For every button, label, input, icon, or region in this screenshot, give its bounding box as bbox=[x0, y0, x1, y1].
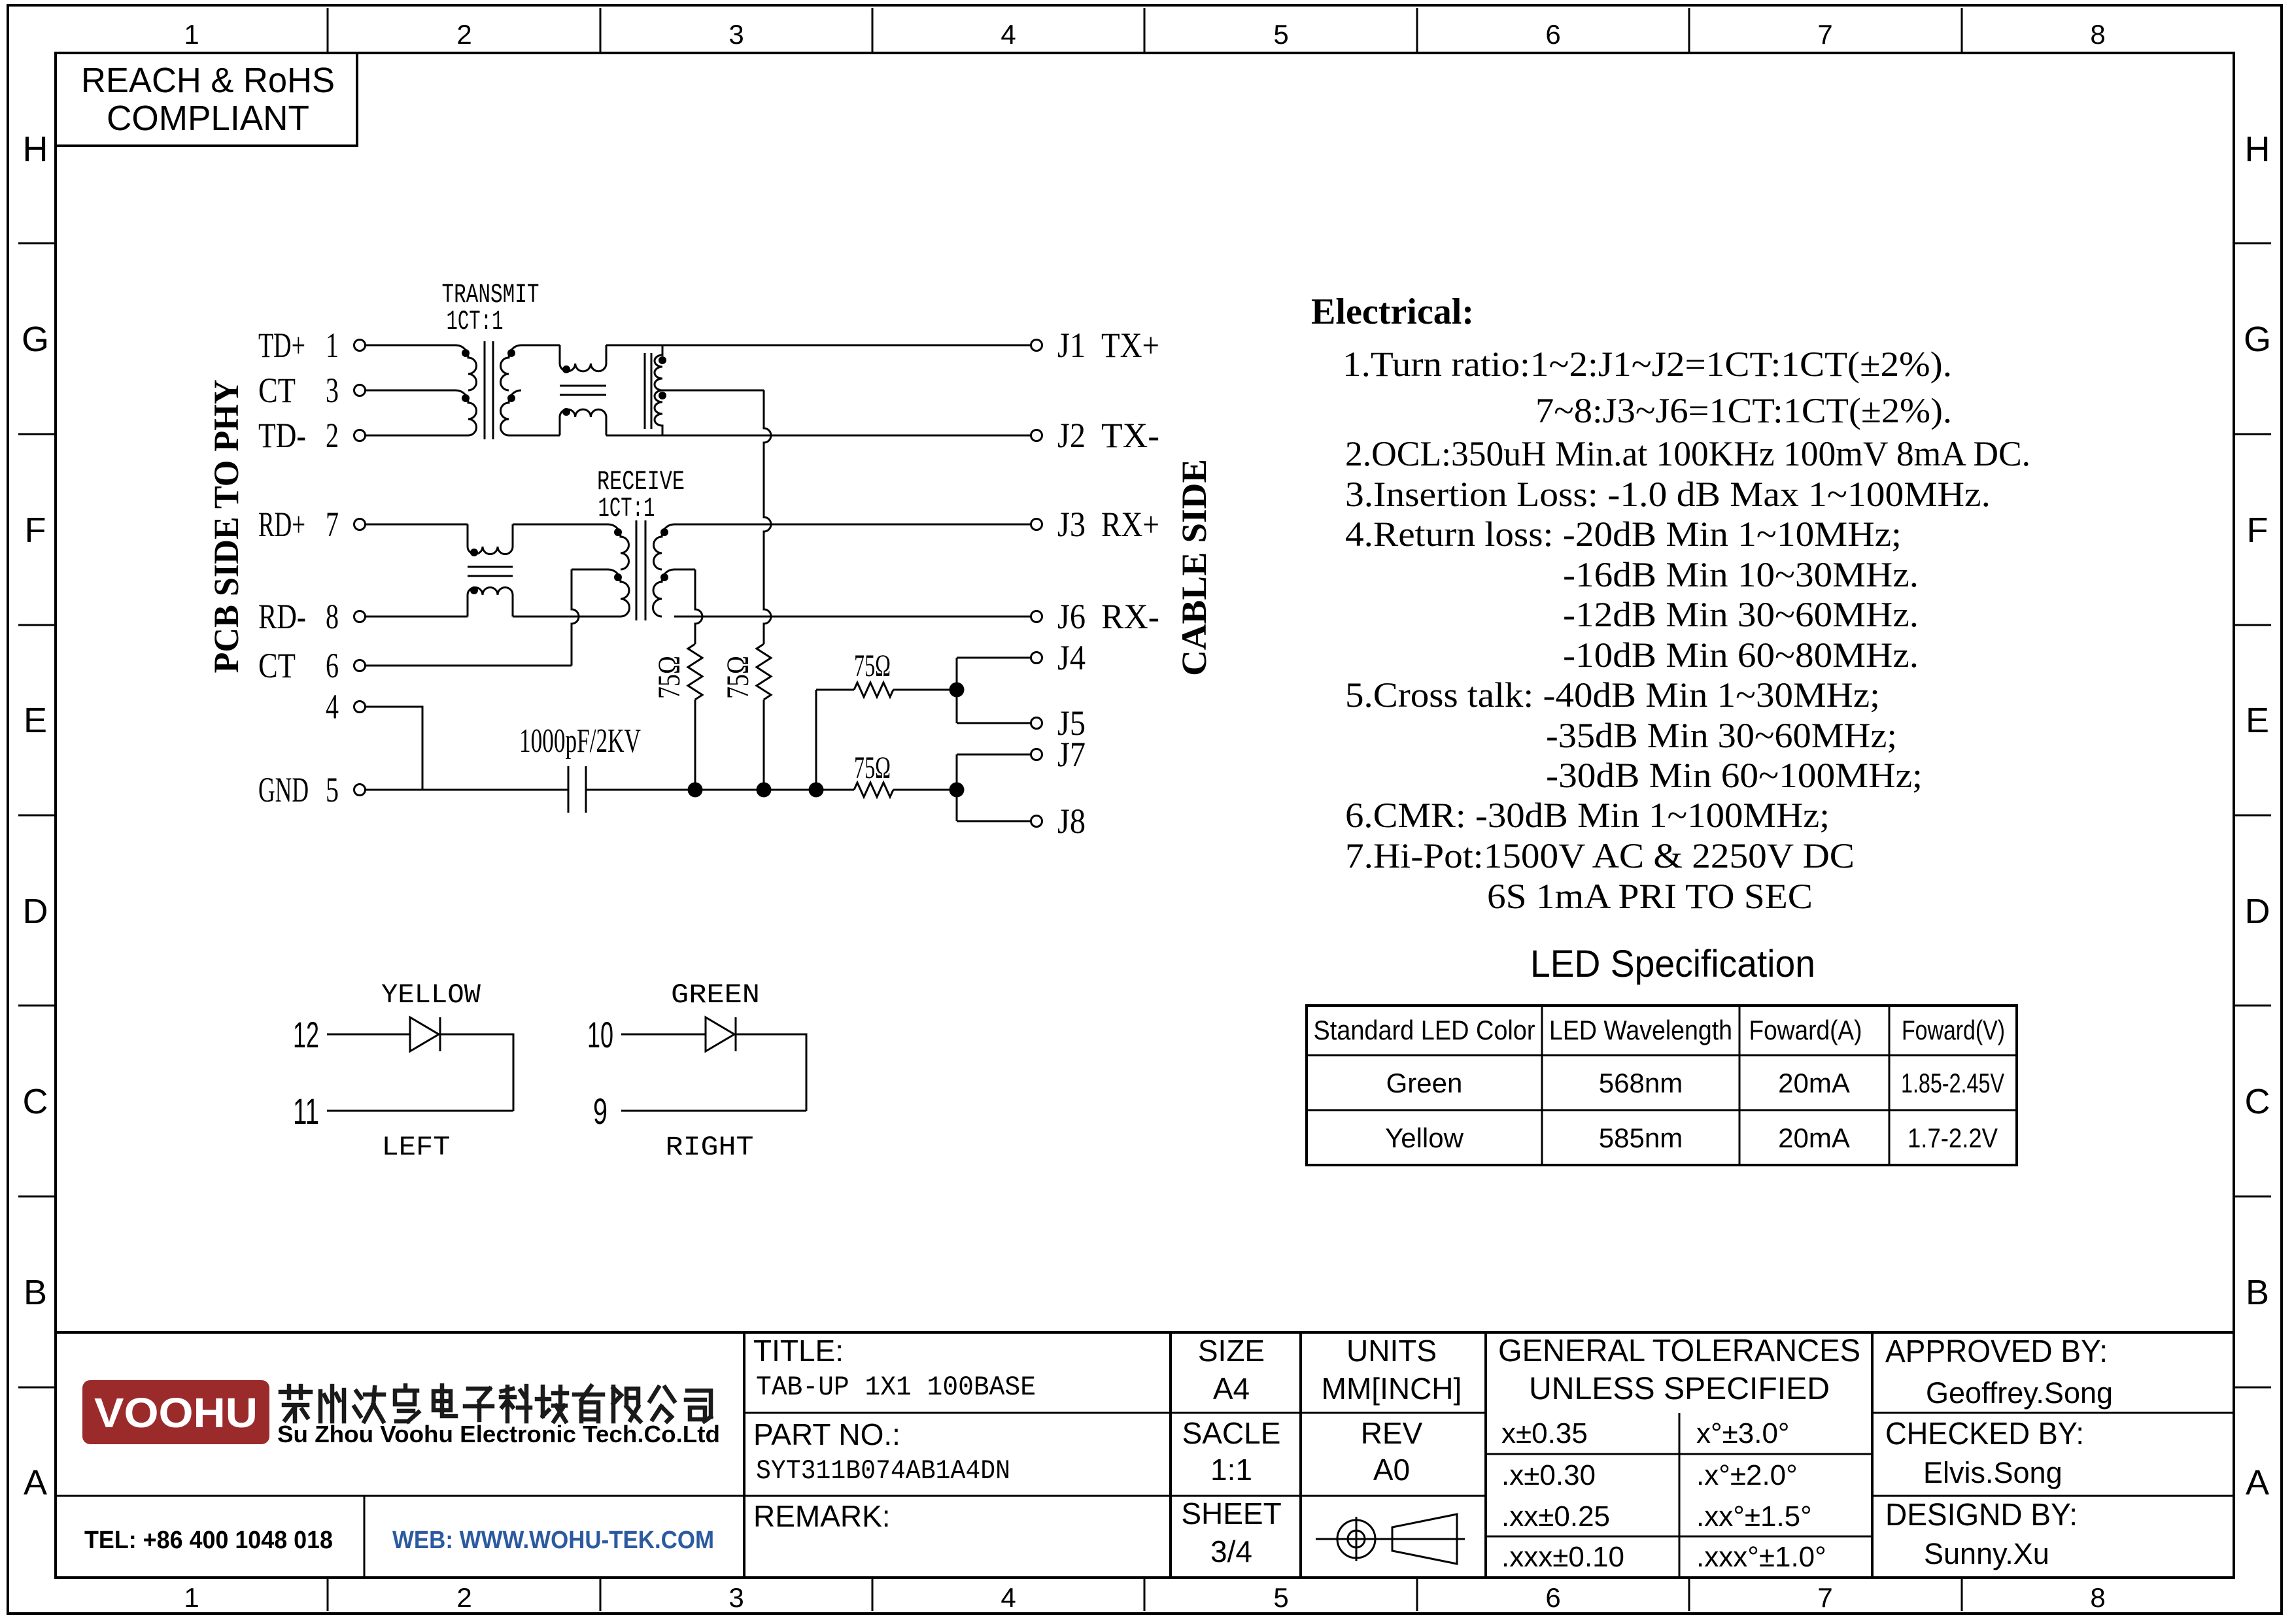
choke L2 top winding bbox=[468, 524, 513, 554]
pin 3 terminal CT bbox=[258, 371, 366, 410]
wire pin10 to D2 bbox=[621, 1034, 706, 1036]
svg-text:SYT311B074AB1A4DN: SYT311B074AB1A4DN bbox=[756, 1455, 1010, 1487]
svg-text:TX+: TX+ bbox=[1101, 326, 1159, 365]
svg-text:1.7-2.2V: 1.7-2.2V bbox=[1908, 1123, 1998, 1153]
pin 2 terminal TD- bbox=[258, 416, 366, 455]
svg-text:D: D bbox=[23, 892, 48, 931]
svg-text:F: F bbox=[2247, 511, 2268, 550]
svg-text:WEB: WWW.WOHU-TEK.COM: WEB: WWW.WOHU-TEK.COM bbox=[392, 1527, 714, 1554]
svg-text:A: A bbox=[2246, 1463, 2269, 1502]
svg-text:7: 7 bbox=[1817, 19, 1832, 50]
svg-text:12: 12 bbox=[293, 1014, 319, 1055]
junction node GND/R3 riser bbox=[809, 783, 824, 798]
label CABLE SIDE bbox=[1174, 459, 1214, 676]
svg-text:10: 10 bbox=[587, 1014, 613, 1055]
wire pin1 to T1 primary bbox=[366, 345, 456, 347]
title block grid bbox=[56, 1332, 2234, 1578]
wire stub J8 bbox=[957, 820, 1031, 822]
svg-text:75Ω: 75Ω bbox=[854, 649, 891, 683]
wire T1 secondary bottom to choke L1 bbox=[509, 435, 560, 437]
wire pin6 bbox=[366, 665, 572, 667]
svg-text:Green: Green bbox=[1386, 1068, 1463, 1098]
svg-text:CT: CT bbox=[258, 371, 296, 410]
L2 polarity dots bbox=[470, 549, 478, 556]
svg-text:2: 2 bbox=[456, 1582, 471, 1613]
svg-text:7: 7 bbox=[326, 505, 339, 544]
svg-text:J3: J3 bbox=[1057, 505, 1086, 544]
label RECEIVE 1CT:1 bbox=[597, 466, 685, 524]
svg-text:PART NO.:: PART NO.: bbox=[753, 1417, 900, 1451]
label PCB SIDE TO PHY bbox=[207, 380, 246, 673]
svg-text:4: 4 bbox=[1001, 1582, 1016, 1613]
border column tick marks bottom bbox=[328, 1578, 1962, 1611]
terminal J2 TX- bbox=[1031, 416, 1160, 455]
wire R4 to J7/J8 node bbox=[893, 789, 957, 791]
svg-text:Foward(V): Foward(V) bbox=[1902, 1015, 2005, 1045]
svg-text:J4: J4 bbox=[1057, 638, 1086, 677]
transformer T2 core bbox=[636, 520, 638, 620]
svg-text:E: E bbox=[2246, 701, 2269, 740]
svg-text:7: 7 bbox=[1817, 1582, 1832, 1613]
svg-text:SACLE: SACLE bbox=[1182, 1416, 1281, 1450]
wire riser to pin6 (hop over pin8 wire) bbox=[572, 569, 579, 666]
wire pin3 to T1 primary CT bbox=[366, 390, 456, 392]
svg-text:75Ω: 75Ω bbox=[652, 656, 687, 699]
svg-text:x°±3.0°: x°±3.0° bbox=[1696, 1417, 1790, 1449]
svg-text:RX+: RX+ bbox=[1101, 505, 1159, 544]
svg-text:1: 1 bbox=[184, 19, 199, 50]
wire stub J7 bbox=[957, 754, 1031, 756]
svg-text:LED Specification: LED Specification bbox=[1530, 943, 1815, 985]
svg-text:8: 8 bbox=[326, 597, 339, 636]
svg-text:.xx±0.25: .xx±0.25 bbox=[1501, 1500, 1610, 1532]
resistor R1 75ohm vertical bbox=[688, 644, 702, 700]
wire T2 secondary bottom to J6 bbox=[674, 616, 1031, 618]
svg-text:8: 8 bbox=[2090, 1582, 2105, 1613]
svg-text:J6: J6 bbox=[1057, 597, 1086, 636]
svg-text:B: B bbox=[24, 1273, 47, 1312]
wire pin7 to choke L2 bbox=[366, 524, 468, 526]
svg-text:6.CMR: -30dB Min 1~100MHz;: 6.CMR: -30dB Min 1~100MHz; bbox=[1345, 796, 1830, 835]
svg-text:A: A bbox=[24, 1463, 47, 1502]
pin 4 terminal bbox=[326, 687, 366, 726]
terminal J3 RX+ bbox=[1031, 505, 1160, 544]
border column numbers top bbox=[184, 19, 2105, 50]
wire bus T2 CT down to R1 (hop over J6) bbox=[695, 569, 702, 644]
resistor R4 75ohm horizontal bbox=[854, 783, 893, 797]
svg-text:5: 5 bbox=[1273, 19, 1288, 50]
svg-text:REMARK:: REMARK: bbox=[753, 1499, 891, 1533]
svg-text:LEFT: LEFT bbox=[382, 1132, 451, 1163]
svg-text:J1: J1 bbox=[1057, 326, 1086, 365]
PART NO cell bbox=[753, 1417, 1010, 1487]
choke L1 core bbox=[560, 385, 606, 387]
REACH & RoHS COMPLIANT box bbox=[56, 53, 357, 146]
svg-text:LED Wavelength: LED Wavelength bbox=[1549, 1015, 1732, 1045]
pin 7 terminal RD+ bbox=[258, 505, 366, 544]
svg-text:2: 2 bbox=[326, 416, 339, 455]
svg-text:-12dB Min 30~60MHz.: -12dB Min 30~60MHz. bbox=[1563, 595, 1919, 634]
wire T2 primary CT bbox=[572, 569, 608, 571]
svg-text:6: 6 bbox=[1545, 1582, 1560, 1613]
terminal J5 bbox=[1031, 703, 1086, 743]
svg-text:.xxx°±1.0°: .xxx°±1.0° bbox=[1696, 1541, 1826, 1573]
terminal J4 bbox=[1031, 638, 1086, 677]
svg-text:11: 11 bbox=[293, 1091, 319, 1132]
svg-text:8: 8 bbox=[2090, 19, 2105, 50]
svg-text:F: F bbox=[25, 511, 46, 550]
svg-text:6: 6 bbox=[1545, 19, 1560, 50]
svg-text:J7: J7 bbox=[1057, 735, 1086, 774]
svg-text:APPROVED BY:: APPROVED BY: bbox=[1885, 1334, 2108, 1369]
L1 polarity dots bbox=[562, 365, 570, 373]
svg-text:-35dB Min 30~60MHz;: -35dB Min 30~60MHz; bbox=[1546, 716, 1897, 755]
pin 5 terminal GND bbox=[258, 770, 366, 809]
junction node R3/J4J5 bbox=[950, 683, 965, 698]
border row letters left bbox=[22, 129, 49, 1502]
diode D1 yellow LED bbox=[410, 1017, 439, 1051]
transformer T3 core bbox=[644, 353, 646, 429]
svg-text:5: 5 bbox=[326, 770, 339, 809]
svg-text:1.85-2.45V: 1.85-2.45V bbox=[1901, 1068, 2004, 1098]
svg-text:DESIGND BY:: DESIGND BY: bbox=[1885, 1498, 2078, 1532]
label R1 75ohm bbox=[652, 656, 687, 699]
LED Specification table bbox=[1307, 1006, 2017, 1165]
svg-text:1: 1 bbox=[326, 326, 339, 365]
svg-text:B: B bbox=[2246, 1273, 2269, 1312]
svg-text:TITLE:: TITLE: bbox=[753, 1334, 844, 1368]
svg-text:1:1: 1:1 bbox=[1210, 1453, 1252, 1487]
wire R2 to GND rail bbox=[763, 700, 765, 790]
svg-text:5.Cross talk: -40dB Min 1~30MH: 5.Cross talk: -40dB Min 1~30MHz; bbox=[1345, 675, 1880, 715]
svg-text:568nm: 568nm bbox=[1599, 1068, 1683, 1098]
transformer T1 primary winding bbox=[456, 345, 477, 390]
svg-text:9: 9 bbox=[593, 1091, 608, 1132]
svg-text:TEL: +86 400 1048 018: TEL: +86 400 1048 018 bbox=[84, 1527, 333, 1554]
svg-text:4.Return loss: -20dB Min 1~10M: 4.Return loss: -20dB Min 1~10MHz; bbox=[1345, 515, 1902, 554]
T2 polarity dots bbox=[614, 528, 622, 536]
transformer T1 secondary winding bbox=[501, 345, 522, 390]
terminal J6 RX- bbox=[1031, 597, 1160, 636]
LED table text bbox=[1314, 1015, 2006, 1153]
svg-text:J8: J8 bbox=[1057, 802, 1086, 841]
junction node GND/R1 bbox=[688, 783, 703, 798]
svg-text:Sunny.Xu: Sunny.Xu bbox=[1924, 1537, 2049, 1570]
svg-text:MM[INCH]: MM[INCH] bbox=[1322, 1372, 1462, 1406]
svg-text:A0: A0 bbox=[1373, 1453, 1410, 1487]
svg-text:2.OCL:350uH Min.at 100KHz 100m: 2.OCL:350uH Min.at 100KHz 100mV 8mA DC. bbox=[1345, 434, 2030, 473]
choke L1 bottom winding bbox=[560, 409, 606, 435]
label R2 75ohm bbox=[721, 656, 755, 699]
wire J7/J8 branch vertical bbox=[956, 754, 958, 821]
wire choke L2 to T2 primary top bbox=[513, 524, 608, 526]
transformer T1 core bbox=[484, 341, 486, 439]
APPROVED BY cell bbox=[1885, 1334, 2113, 1410]
pin 6 terminal CT bbox=[258, 646, 366, 685]
wire stub J5 bbox=[957, 722, 1031, 724]
junction node GND/R2 bbox=[757, 783, 772, 798]
svg-text:.xx°±1.5°: .xx°±1.5° bbox=[1696, 1500, 1812, 1532]
transformer T2 primary winding bbox=[608, 524, 629, 569]
svg-text:H: H bbox=[23, 129, 48, 169]
wire bus T3 CT down to R2 (hops over J2,J3,J6) bbox=[764, 390, 771, 644]
svg-text:Electrical:: Electrical: bbox=[1311, 292, 1474, 332]
label TRANSMIT 1CT:1 bbox=[442, 279, 539, 337]
choke L2 bottom winding bbox=[468, 588, 513, 617]
wire J4/J5 branch vertical bbox=[956, 658, 958, 723]
svg-text:A4: A4 bbox=[1213, 1372, 1250, 1406]
svg-text:C: C bbox=[23, 1082, 48, 1121]
svg-text:RX-: RX- bbox=[1101, 597, 1159, 636]
svg-text:75Ω: 75Ω bbox=[854, 751, 891, 785]
wire C1 to GND junctions bbox=[586, 789, 854, 791]
resistor R3 75ohm horizontal bbox=[854, 683, 893, 697]
diode D2 green LED bbox=[706, 1017, 734, 1051]
svg-text:20mA: 20mA bbox=[1778, 1123, 1850, 1153]
svg-text:3.Insertion Loss: -1.0 dB Max: 3.Insertion Loss: -1.0 dB Max 1~100MHz. bbox=[1345, 475, 1991, 514]
wire T3 center tap bbox=[662, 390, 764, 392]
svg-text:J2: J2 bbox=[1057, 416, 1086, 455]
CHECKED BY cell bbox=[1885, 1417, 2084, 1489]
svg-text:Geoffrey.Song: Geoffrey.Song bbox=[1926, 1376, 2113, 1410]
transformer T2 secondary winding bbox=[654, 524, 675, 569]
company name Chinese characters (stroke approximation) bbox=[281, 1385, 711, 1421]
svg-text:Yellow: Yellow bbox=[1385, 1123, 1464, 1153]
svg-text:RD+: RD+ bbox=[258, 505, 305, 544]
svg-text:75Ω: 75Ω bbox=[721, 656, 755, 699]
wire R3 to J4/J5 node bbox=[893, 689, 957, 691]
REV cell bbox=[1361, 1416, 1423, 1487]
svg-text:5: 5 bbox=[1273, 1582, 1288, 1613]
svg-text:VOOHU: VOOHU bbox=[94, 1389, 258, 1436]
TITLE cell bbox=[753, 1334, 1036, 1403]
svg-text:TX-: TX- bbox=[1101, 416, 1159, 455]
svg-text:-16dB Min 10~30MHz.: -16dB Min 10~30MHz. bbox=[1563, 555, 1919, 594]
svg-text:6S 1mA PRI TO SEC: 6S 1mA PRI TO SEC bbox=[1487, 877, 1813, 916]
svg-text:1000pF/2KV: 1000pF/2KV bbox=[519, 722, 641, 760]
svg-text:CHECKED BY:: CHECKED BY: bbox=[1885, 1417, 2084, 1451]
tolerance values bbox=[1501, 1417, 1826, 1573]
wire pin8 to choke L2 bbox=[366, 616, 468, 618]
svg-text:Foward(A): Foward(A) bbox=[1749, 1015, 1862, 1045]
wire riser to R3 bbox=[815, 690, 817, 790]
junction node GND/J7J8 bbox=[950, 783, 965, 798]
svg-text:.x±0.30: .x±0.30 bbox=[1501, 1459, 1596, 1491]
terminal J1 TX+ bbox=[1031, 326, 1160, 365]
svg-text:3: 3 bbox=[728, 19, 744, 50]
svg-text:SIZE: SIZE bbox=[1198, 1334, 1265, 1368]
svg-text:H: H bbox=[2245, 129, 2270, 169]
wire stub J4 bbox=[957, 657, 1031, 659]
svg-text:C: C bbox=[2245, 1082, 2270, 1121]
wire D1 to corner bbox=[440, 1034, 513, 1111]
svg-text:-30dB Min 60~100MHz;: -30dB Min 60~100MHz; bbox=[1546, 756, 1923, 795]
wire pin11 bbox=[327, 1110, 513, 1112]
wire to R3 bbox=[816, 689, 854, 691]
wire top rail to J1 bbox=[606, 345, 1031, 347]
svg-text:PCB SIDE TO PHY: PCB SIDE TO PHY bbox=[207, 380, 246, 673]
border row tick marks right bbox=[2234, 243, 2271, 1387]
pin 8 terminal RD- bbox=[258, 597, 366, 636]
svg-text:7.Hi-Pot:1500V AC & 2250V DC: 7.Hi-Pot:1500V AC & 2250V DC bbox=[1345, 836, 1855, 875]
wire T2 secondary CT bbox=[674, 569, 695, 571]
SHEET cell bbox=[1181, 1497, 1281, 1568]
border column tick marks top bbox=[328, 8, 1962, 53]
svg-text:RIGHT: RIGHT bbox=[666, 1132, 754, 1163]
svg-text:COMPLIANT: COMPLIANT bbox=[107, 99, 309, 138]
svg-text:RD-: RD- bbox=[258, 597, 306, 636]
wire bottom rail to J2 bbox=[606, 435, 1031, 437]
svg-text:CABLE SIDE: CABLE SIDE bbox=[1174, 459, 1214, 676]
wire choke L2 to T2 primary bottom bbox=[513, 616, 621, 618]
svg-text:TD+: TD+ bbox=[258, 326, 305, 365]
svg-text:GENERAL TOLERANCES: GENERAL TOLERANCES bbox=[1498, 1334, 1860, 1368]
svg-text:-10dB Min 60~80MHz.: -10dB Min 60~80MHz. bbox=[1563, 635, 1919, 675]
choke L1 top winding bbox=[560, 345, 606, 371]
svg-text:20mA: 20mA bbox=[1778, 1068, 1850, 1098]
VOOHU logo red box bbox=[82, 1380, 269, 1444]
terminal J8 bbox=[1031, 802, 1086, 841]
svg-text:1: 1 bbox=[184, 1582, 199, 1613]
DESIGND BY cell bbox=[1885, 1498, 2078, 1570]
wire R1 to GND rail bbox=[694, 700, 696, 790]
transformer T3 winding bbox=[655, 345, 662, 390]
border row tick marks left bbox=[18, 243, 56, 1387]
svg-text:1.Turn ratio:1~2:J1~J2=1CT:1CT: 1.Turn ratio:1~2:J1~J2=1CT:1CT(±2%). bbox=[1343, 345, 1952, 384]
svg-text:TD-: TD- bbox=[258, 416, 306, 455]
T3 polarity dots bbox=[659, 356, 666, 364]
svg-text:Standard LED Color: Standard LED Color bbox=[1314, 1015, 1535, 1045]
svg-text:.xxx±0.10: .xxx±0.10 bbox=[1501, 1541, 1624, 1573]
svg-text:6: 6 bbox=[326, 646, 339, 685]
svg-text:3: 3 bbox=[326, 371, 339, 410]
Electrical notes body bbox=[1343, 345, 2030, 916]
border row letters right bbox=[2244, 129, 2271, 1502]
svg-text:4: 4 bbox=[326, 687, 339, 726]
svg-text:GREEN: GREEN bbox=[671, 979, 760, 1011]
svg-text:G: G bbox=[22, 320, 49, 359]
svg-text:585nm: 585nm bbox=[1599, 1123, 1683, 1153]
svg-text:Su Zhou Voohu Electronic Tech.: Su Zhou Voohu Electronic Tech.Co.Ltd bbox=[277, 1421, 720, 1447]
svg-text:UNLESS SPECIFIED: UNLESS SPECIFIED bbox=[1529, 1372, 1830, 1406]
svg-text:UNITS: UNITS bbox=[1346, 1334, 1437, 1368]
svg-text:CT: CT bbox=[258, 646, 296, 685]
svg-text:E: E bbox=[24, 701, 47, 740]
SACLE cell bbox=[1182, 1416, 1281, 1487]
wire T1 secondary top to choke L1 bbox=[521, 345, 560, 347]
UNITS cell bbox=[1322, 1334, 1462, 1406]
resistor R2 75ohm vertical bbox=[757, 644, 771, 700]
svg-text:D: D bbox=[2245, 892, 2270, 931]
svg-text:GND: GND bbox=[258, 770, 309, 809]
svg-text:REACH & RoHS: REACH & RoHS bbox=[81, 61, 335, 100]
wire pin4 to GND rail bbox=[366, 707, 422, 790]
GENERAL TOLERANCES header bbox=[1498, 1334, 1860, 1406]
svg-text:2: 2 bbox=[456, 19, 471, 50]
wire pin12 to D1 bbox=[327, 1034, 410, 1036]
svg-text:3: 3 bbox=[728, 1582, 744, 1613]
wire pin2 to T1 primary bottom bbox=[366, 435, 468, 437]
wire D2 to corner bbox=[736, 1034, 806, 1111]
SIZE cell bbox=[1198, 1334, 1265, 1406]
svg-text:YELLOW: YELLOW bbox=[381, 979, 481, 1011]
pin 1 terminal TD+ bbox=[258, 326, 366, 365]
capacitor C1 1000pF/2KV bbox=[568, 766, 570, 813]
terminal J7 bbox=[1031, 735, 1086, 774]
wire T2 secondary top to J3 bbox=[674, 524, 1031, 526]
svg-text:1CT:1: 1CT:1 bbox=[447, 306, 504, 337]
T1 polarity dots bbox=[462, 349, 470, 357]
third angle projection symbol bbox=[1316, 1514, 1465, 1564]
svg-text:.x°±2.0°: .x°±2.0° bbox=[1696, 1459, 1798, 1491]
svg-text:x±0.35: x±0.35 bbox=[1501, 1417, 1588, 1449]
svg-text:TAB-UP 1X1 100BASE: TAB-UP 1X1 100BASE bbox=[756, 1372, 1036, 1403]
svg-text:Elvis.Song: Elvis.Song bbox=[1923, 1456, 2063, 1489]
svg-text:G: G bbox=[2244, 320, 2271, 359]
svg-text:1CT:1: 1CT:1 bbox=[598, 493, 655, 524]
svg-text:7~8:J3~J6=1CT:1CT(±2%).: 7~8:J3~J6=1CT:1CT(±2%). bbox=[1535, 391, 1952, 430]
svg-text:4: 4 bbox=[1001, 19, 1016, 50]
border column numbers bottom bbox=[184, 1582, 2105, 1613]
choke L2 core bbox=[468, 566, 513, 568]
svg-text:3/4: 3/4 bbox=[1210, 1534, 1252, 1568]
svg-text:SHEET: SHEET bbox=[1181, 1497, 1281, 1531]
wire pin5 to C1 bbox=[366, 789, 568, 791]
svg-text:REV: REV bbox=[1361, 1416, 1423, 1450]
wire pin9 bbox=[621, 1110, 806, 1112]
